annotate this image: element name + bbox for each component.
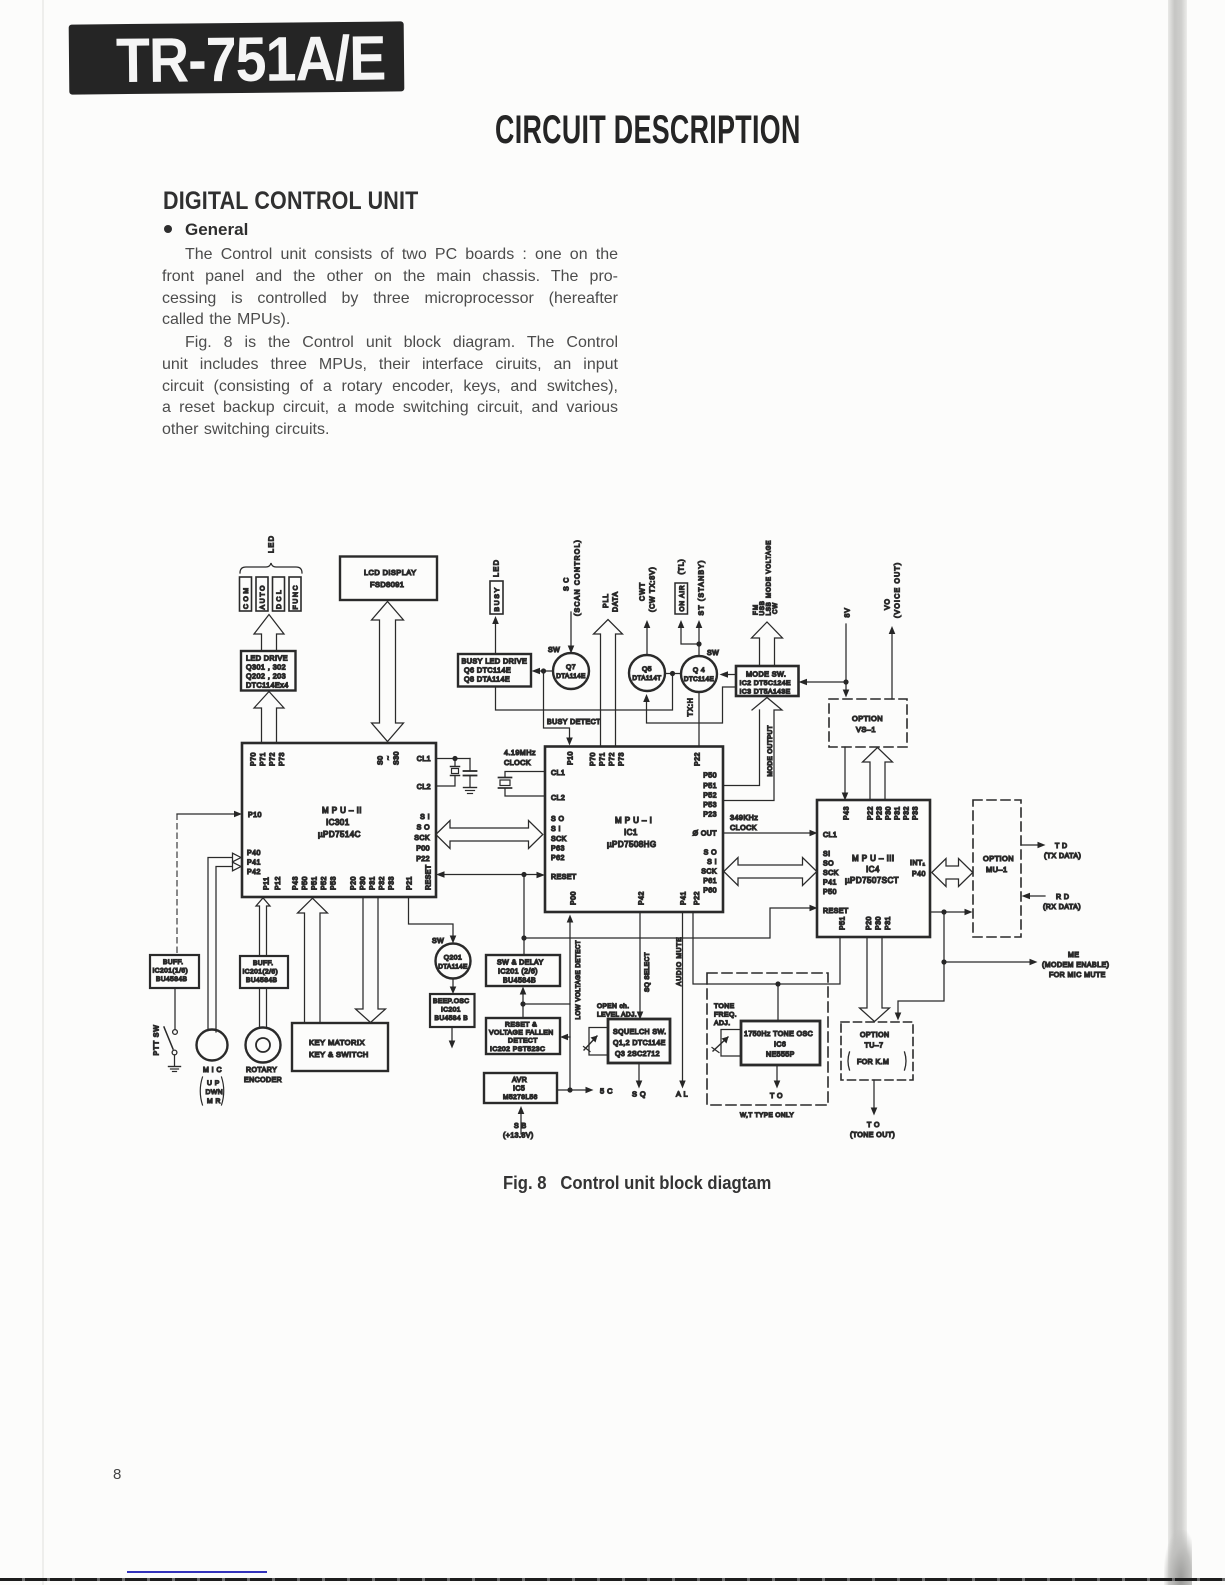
svg-text:P22: P22 (868, 806, 875, 820)
svg-text:TONE: TONE (714, 1003, 735, 1010)
block arrow MODE OUTPUT (MPU-I P51/P53 to MODE SW) (723, 698, 782, 801)
svg-text:P31: P31 (895, 806, 902, 820)
block double arrow LCD DISPLAY to MPU-II S0~S30 (372, 602, 404, 742)
svg-text:DTA114E: DTA114E (556, 673, 586, 680)
svg-text:P71: P71 (260, 752, 267, 766)
svg-text:T O: T O (770, 1093, 783, 1100)
wire MPU-III P40 to MU-1 / modem enable (930, 911, 967, 913)
svg-text:P61: P61 (703, 878, 717, 885)
wire AVR output 5C (557, 1089, 588, 1091)
svg-text:BUSY DETECT: BUSY DETECT (547, 719, 601, 726)
wire 8V supply (845, 624, 847, 692)
wire MPU-II P21 to Q201 (409, 897, 454, 938)
darker scanner corner bottom right (1164, 1530, 1192, 1585)
CIRCUIT DESCRIPTION title (495, 108, 801, 153)
junction node Q4 gate (696, 641, 701, 646)
svg-text:P42: P42 (247, 869, 261, 876)
svg-text:P40: P40 (912, 871, 926, 878)
svg-text:BUSY: BUSY (494, 586, 501, 611)
svg-text:BUSY LED DRIVE: BUSY LED DRIVE (462, 657, 528, 666)
svg-text:P70: P70 (251, 752, 258, 766)
potentiometer tone freq (721, 1030, 741, 1057)
junction node CL1 (452, 756, 457, 761)
option block TU-7 (dashed) (841, 1022, 913, 1080)
svg-text:P51: P51 (703, 783, 717, 790)
svg-text:M P U – III: M P U – III (852, 854, 895, 863)
svg-text:P20: P20 (351, 876, 358, 890)
svg-text:DETECT: DETECT (508, 1038, 538, 1045)
block 1750Hz TONE OSC IC6 NE555P (741, 1021, 820, 1065)
junction node tone input (775, 981, 780, 986)
svg-text:Q 4: Q 4 (693, 667, 705, 674)
wire MPU-I P42 to SQUELCH SW (639, 912, 641, 1014)
wire 8V to MODE SW (804, 681, 846, 683)
svg-text:CL1: CL1 (551, 770, 565, 777)
block AVR IC5 M5278L56 (484, 1073, 557, 1103)
wire NE555 to TO (776, 1065, 778, 1083)
wire low voltage node to P00 line (523, 1003, 570, 1005)
svg-text:P00: P00 (571, 891, 578, 905)
svg-text:SI: SI (823, 851, 831, 858)
svg-text:NE555P: NE555P (766, 1052, 795, 1059)
svg-text:RESET: RESET (823, 908, 849, 915)
wire MPU-III P51 to tone osc (778, 937, 840, 984)
svg-text:µPD7514C: µPD7514C (318, 830, 361, 839)
svg-text:KEY & SWITCH: KEY & SWITCH (309, 1050, 369, 1059)
option dashed enclosure W,T type only (707, 973, 828, 1105)
svg-text:P73: P73 (619, 752, 626, 766)
junction node between Q5 and Q4 (670, 671, 675, 676)
svg-text:CL1: CL1 (417, 756, 431, 763)
blue pen mark bottom left (127, 1571, 267, 1573)
wire Q7 to BUSY LED DRIVE (537, 670, 553, 672)
svg-text:S30: S30 (394, 751, 401, 765)
svg-text:M5278L56: M5278L56 (503, 1094, 538, 1101)
svg-text:IC6: IC6 (774, 1042, 786, 1049)
svg-text:349KHz: 349KHz (730, 813, 758, 822)
wire Q4 to MPU-I P22 (698, 692, 700, 746)
scanner grey strip right edge (1168, 0, 1187, 1585)
option block MU-1 (dashed) (973, 800, 1021, 937)
wire P10 input (PTT line) (177, 813, 237, 815)
block MODE SW. IC2 DT5C124E IC3 DT5A143E (736, 666, 799, 696)
svg-text:P20: P20 (866, 916, 873, 930)
svg-text:BUFF.: BUFF. (163, 959, 184, 966)
junction node AVR output (567, 1087, 572, 1092)
svg-text:ON AIR: ON AIR (679, 585, 686, 612)
svg-text:P51: P51 (840, 916, 847, 930)
svg-text:MU–1: MU–1 (986, 865, 1008, 874)
block LCD DISPLAY FSD8091 (340, 557, 437, 601)
svg-text:Q202 , 203: Q202 , 203 (246, 672, 286, 681)
crystal X301 (MPU-II) (454, 759, 456, 767)
svg-text:P63: P63 (551, 846, 565, 853)
svg-text:MODE SW.: MODE SW. (746, 670, 786, 679)
page number (113, 1466, 121, 1483)
svg-text:AUTO: AUTO (260, 584, 267, 610)
svg-text:5 C: 5 C (600, 1087, 613, 1096)
svg-text:OPTION: OPTION (860, 1032, 890, 1039)
svg-text:DTA114T: DTA114T (632, 675, 661, 682)
svg-text:CLOCK: CLOCK (730, 823, 757, 832)
svg-text:RESET: RESET (551, 874, 577, 881)
option block VS-1 (dashed) (829, 699, 907, 747)
svg-text:CW: CW (772, 602, 779, 614)
svg-text:S C: S C (564, 577, 571, 591)
svg-text:ADJ.: ADJ. (714, 1020, 731, 1027)
svg-text:DATA: DATA (613, 591, 620, 612)
svg-text:P42: P42 (639, 891, 646, 905)
svg-text:S Q: S Q (632, 1090, 646, 1099)
svg-text:IC5: IC5 (513, 1086, 525, 1093)
LED indicator ON AIR (boxed) (675, 583, 688, 614)
LED indicator DCL (273, 577, 285, 611)
svg-text:(VOICE OUT): (VOICE OUT) (895, 562, 902, 618)
svg-text:P10: P10 (568, 751, 575, 765)
transistor switch Q5 DTA114T (629, 655, 665, 691)
svg-text:R D: R D (1056, 894, 1069, 901)
svg-text:AVR: AVR (512, 1077, 527, 1084)
svg-text:P40: P40 (247, 850, 261, 857)
svg-text:P33: P33 (913, 806, 920, 820)
svg-text:VOLTAGE FALLEN: VOLTAGE FALLEN (489, 1030, 554, 1037)
svg-text:OPEN ch.: OPEN ch. (597, 1003, 630, 1010)
svg-text:IC2 DT5C124E: IC2 DT5C124E (740, 680, 792, 687)
svg-text:(SCAN CONTROL): (SCAN CONTROL) (575, 539, 582, 616)
svg-text:(TONE OUT): (TONE OUT) (850, 1132, 895, 1139)
block SQUELCH SW. Q1,2 DTC114E Q3 2SC2712 (608, 1019, 670, 1063)
Fig. 8 caption (503, 1172, 771, 1194)
svg-text:P53: P53 (703, 802, 717, 809)
svg-text:ME: ME (1068, 952, 1079, 959)
svg-text:ENCODER: ENCODER (244, 1077, 282, 1084)
faint scanner line left (42, 0, 44, 1585)
wire MPU-I P41 audio mute to AL (682, 912, 684, 1083)
svg-text:S I: S I (551, 826, 561, 833)
svg-text:BEEP.OSC: BEEP.OSC (433, 998, 469, 1005)
paragraph 1 (162, 244, 618, 331)
junction node low voltage (520, 1001, 525, 1006)
wire BUSY LED DRIVE to BUSY LED (495, 622, 497, 654)
block arrow PLL DATA from MPU-I (594, 620, 623, 747)
svg-text:BU4584B: BU4584B (246, 977, 278, 984)
svg-text:P11: P11 (264, 877, 271, 890)
svg-text:P22: P22 (695, 752, 702, 766)
svg-text:RESET &: RESET & (505, 1022, 537, 1029)
wire RESET node down to SW&DELAY (523, 875, 525, 956)
svg-text:IC202 PST523C: IC202 PST523C (490, 1046, 545, 1053)
svg-text:P12: P12 (275, 876, 282, 890)
block double arrow MPU-II / MPU-I serial bus (436, 821, 543, 849)
svg-text:P43: P43 (844, 806, 851, 820)
svg-text:µPD7507SCT: µPD7507SCT (845, 876, 899, 885)
svg-text:P30: P30 (886, 806, 893, 820)
wire LOW VOLTAGE DETECT (MPU-I P00) (569, 920, 571, 1090)
switch PTT SW (174, 988, 176, 1029)
svg-text:P21: P21 (407, 876, 414, 890)
svg-text:KEY MATORIX: KEY MATORIX (309, 1038, 365, 1047)
TR-751A/E model badge (69, 21, 405, 94)
svg-text:BU4584B: BU4584B (156, 976, 188, 983)
wire RESET net MPU-II / MPU-I (441, 874, 540, 876)
svg-text:P50: P50 (302, 876, 309, 890)
svg-text:P10: P10 (248, 812, 262, 819)
transistor switch Q7 DTA114E (553, 653, 589, 689)
svg-text:OPTION: OPTION (852, 714, 883, 723)
block BUSY LED DRIVE Q6 DTC114E Q8 DTA114E (458, 654, 531, 687)
ground (PTT) (169, 1066, 181, 1068)
wire reset net to MPU-III RESET (524, 908, 812, 938)
svg-text:LED: LED (492, 559, 501, 577)
bottom separator dashed dark line (0, 1578, 1225, 1581)
svg-text:IC301: IC301 (326, 818, 350, 827)
block BUFF. IC201(1/6) BU4584B (150, 955, 199, 988)
svg-text:COM: COM (243, 585, 250, 609)
svg-text:CLOCK: CLOCK (504, 758, 531, 767)
block arrow KEY MATRIX to MPU-II P43-P53 (298, 898, 328, 1023)
svg-text:(CW TX:8V): (CW TX:8V) (650, 566, 657, 612)
svg-text:Ø OUT: Ø OUT (693, 831, 718, 838)
svg-text:Q301 , 302: Q301 , 302 (246, 663, 286, 672)
svg-text:P52: P52 (703, 793, 717, 800)
wire RESET&VF to SW&DELAY (522, 992, 524, 1018)
svg-text:CWT: CWT (640, 581, 647, 601)
svg-text:P30: P30 (360, 876, 367, 890)
svg-text:DCL: DCL (276, 588, 283, 609)
svg-text:FOR MIC MUTE: FOR MIC MUTE (1049, 972, 1106, 979)
svg-text:M I C: M I C (203, 1067, 222, 1074)
svg-text:1750Hz TONE OSC: 1750Hz TONE OSC (744, 1031, 813, 1038)
wire Q5-Q4 link (665, 673, 681, 675)
svg-text:TU–7: TU–7 (865, 1043, 884, 1050)
LED indicator BUSY (490, 581, 503, 614)
svg-text:P50: P50 (823, 889, 837, 896)
svg-text:FOR K.M: FOR K.M (857, 1059, 889, 1066)
svg-text:Q8 DTA114E: Q8 DTA114E (464, 675, 510, 684)
svg-text:LED DRIVE: LED DRIVE (246, 654, 288, 663)
wire MU-1 to TD (TX DATA) (1021, 844, 1040, 846)
LED indicator AUTO (256, 577, 268, 611)
svg-text:IC3 DT5A143E: IC3 DT5A143E (740, 689, 791, 696)
General bullet heading (164, 220, 248, 240)
junction node RESET (521, 872, 526, 877)
svg-text:Q7: Q7 (566, 664, 576, 671)
wire phi OUT to MPU-III CL1 (723, 832, 812, 834)
block double arrow MPU-I / MPU-III serial bus (724, 858, 817, 886)
svg-text:IC201: IC201 (441, 1007, 461, 1014)
svg-text:P41: P41 (247, 860, 261, 867)
svg-text:BUFF.: BUFF. (253, 960, 274, 967)
wire MIC to MPU-II P40/P41 (208, 858, 233, 1031)
microphone MIC (197, 1030, 228, 1061)
svg-text:P72: P72 (270, 752, 277, 766)
svg-text:P31: P31 (370, 876, 377, 890)
svg-text:TX:H: TX:H (688, 697, 695, 716)
svg-text:M P U – II: M P U – II (322, 806, 362, 815)
block RESET & VOLTAGE FALLEN DETECT IC202 PST523C (486, 1018, 560, 1054)
svg-text:T D: T D (1055, 843, 1068, 850)
svg-text:IC4: IC4 (866, 865, 880, 874)
svg-text:P52: P52 (321, 876, 328, 890)
svg-text:INT₁: INT₁ (910, 860, 926, 867)
wire SB supply to AVR (520, 1111, 522, 1134)
op block MPU-I IC1 uPD7508HG (545, 747, 723, 913)
svg-text:(TL): (TL) (679, 558, 686, 574)
svg-text:IC201 (2/6): IC201 (2/6) (498, 969, 538, 976)
svg-text:SQ SELECT: SQ SELECT (644, 952, 651, 992)
svg-text:ST (STANBY): ST (STANBY) (699, 559, 706, 615)
svg-text:P32: P32 (379, 876, 386, 890)
block BUFF. IC201(2/6) BU4584B (240, 956, 288, 988)
svg-text:SW: SW (432, 938, 444, 945)
svg-text:Q1,2 DTC114E: Q1,2 DTC114E (613, 1040, 666, 1047)
brace over LED indicator boxes (240, 563, 302, 573)
block BEEP.OSC IC201 BU4584B (430, 994, 475, 1027)
svg-text:SCK: SCK (823, 870, 839, 877)
rotary encoder (246, 1028, 281, 1063)
svg-text:P51: P51 (312, 876, 319, 890)
svg-text:M P U – I: M P U – I (615, 816, 652, 825)
svg-text:P00: P00 (416, 846, 430, 853)
svg-text:SO: SO (823, 861, 834, 868)
wire modem enable branch (898, 912, 944, 1015)
svg-text:VS–1: VS–1 (856, 725, 876, 734)
wire MODE SW to Q5 base (647, 687, 737, 723)
wire Q5 to CWT output (646, 626, 648, 655)
op block MPU-II IC301 uPD7514C (242, 743, 436, 897)
svg-text:IC201(1/6): IC201(1/6) (153, 968, 189, 975)
wire Q4 to ON AIR / ST outputs (698, 626, 700, 656)
svg-text:U P: U P (207, 1080, 220, 1087)
wire BEEP OSC output (451, 1027, 453, 1043)
svg-text:SCK: SCK (701, 869, 717, 876)
block arrow MODE SW to mode voltage outputs (752, 622, 783, 666)
wire SC input to Q7 (570, 612, 572, 648)
svg-text:SW: SW (707, 650, 719, 657)
block arrow MPU-III P20/P30/P31 to TU-7 (860, 937, 890, 1022)
block double arrow MPU-III / MU-1 (932, 859, 973, 887)
svg-text:P41: P41 (823, 880, 837, 887)
svg-text:P30: P30 (876, 916, 883, 930)
wire MODE SW to Q4 (725, 674, 736, 676)
svg-text:IC1: IC1 (624, 828, 638, 837)
svg-text:P31: P31 (885, 916, 892, 930)
svg-text:MODE VOLTAGE: MODE VOLTAGE (766, 540, 773, 598)
transistor switch Q4 DTC114E (681, 656, 717, 692)
svg-text:BU4584 B: BU4584 B (435, 1015, 469, 1022)
crystal X1 (MPU-I clock) (505, 772, 545, 778)
wire TU-7 to TO (TONE OUT) (873, 1080, 875, 1110)
svg-text:P62: P62 (551, 855, 565, 862)
svg-text:P22: P22 (694, 891, 701, 905)
svg-text:P70: P70 (590, 752, 597, 766)
svg-text:(+13.8V): (+13.8V) (503, 1133, 534, 1140)
svg-text:T O: T O (867, 1122, 880, 1129)
wire tone node to NE555 (777, 984, 779, 1021)
svg-text:P22: P22 (416, 856, 430, 863)
svg-text:Q201: Q201 (444, 955, 462, 962)
svg-text:P33: P33 (389, 876, 396, 890)
junction node modem enable (941, 909, 946, 914)
wire MPU-II CL1 to crystal node (436, 758, 470, 760)
svg-text:Q6 DTC114E: Q6 DTC114E (464, 666, 511, 675)
svg-text:P71: P71 (600, 752, 607, 766)
ground (MPU-II oscillator) (464, 787, 477, 789)
LED indicator FUNC (289, 577, 301, 611)
junction node reset backup (521, 935, 526, 940)
svg-text:IC201(2/6): IC201(2/6) (243, 969, 279, 976)
svg-text:P73: P73 (279, 752, 286, 766)
label (UP DWN MR) (200, 1077, 202, 1105)
wire VS-1 to MPU-III P43 (844, 747, 846, 795)
svg-text:A L: A L (676, 1090, 688, 1099)
DIGITAL CONTROL UNIT heading (163, 187, 418, 216)
svg-text:P72: P72 (609, 752, 616, 766)
svg-text:P43: P43 (293, 876, 300, 890)
svg-text:SCK: SCK (414, 835, 430, 842)
svg-text:CL2: CL2 (551, 795, 565, 802)
wire AVR branch to RESET&VF detect (566, 1036, 571, 1038)
svg-text:PTT SW: PTT SW (154, 1024, 161, 1055)
svg-text:(MODEM ENABLE): (MODEM ENABLE) (1042, 962, 1109, 969)
wire RD (RX DATA) to MU-1 (1026, 895, 1045, 897)
svg-text:DTA114E: DTA114E (438, 964, 468, 971)
svg-text:LEVEL ADJ.: LEVEL ADJ. (597, 1012, 637, 1019)
svg-text:DTC114E: DTC114E (684, 676, 714, 683)
svg-text:PLL: PLL (603, 593, 610, 608)
junction node ME (941, 959, 946, 964)
svg-text:(TX DATA): (TX DATA) (1044, 853, 1081, 860)
svg-text:CL1: CL1 (823, 832, 837, 839)
block arrow MPU-II P20-P33 to KEY MATRIX (356, 898, 386, 1023)
svg-text:VO: VO (885, 598, 892, 610)
svg-text:S0: S0 (378, 756, 385, 765)
wire MPU-I P22 to tone oscillator (693, 912, 778, 984)
svg-text:MODE OUTPUT: MODE OUTPUT (767, 725, 774, 776)
svg-text:P60: P60 (703, 888, 717, 895)
svg-text:8V: 8V (845, 607, 852, 617)
junction node busy detect (541, 668, 546, 673)
svg-text:P23: P23 (703, 812, 717, 819)
svg-text:Q3 2SC2712: Q3 2SC2712 (615, 1051, 660, 1058)
wire BUSY DETECT to MPU-I P10 (544, 671, 570, 740)
block KEY MATORIX KEY & SWITCH (292, 1023, 388, 1071)
svg-text:W,T TYPE ONLY: W,T TYPE ONLY (740, 1112, 794, 1119)
LED indicator COM (240, 577, 252, 611)
svg-text:RESET: RESET (426, 864, 433, 890)
svg-text:SW & DELAY: SW & DELAY (497, 960, 544, 967)
svg-text:SCK: SCK (551, 836, 567, 843)
svg-text:S O: S O (551, 816, 565, 823)
wire BUSY LED DRIVE output to Q5/Q4 node (496, 676, 673, 710)
block SW & DELAY IC201 (2/6) BU4584B (486, 955, 560, 986)
svg-text:P41: P41 (681, 891, 688, 905)
block LED DRIVE Q301,302 Q202,203 DTC114Ex4 (241, 651, 296, 691)
svg-text:LOW VOLTAGE DETECT: LOW VOLTAGE DETECT (575, 940, 582, 1020)
svg-text:FSD8091: FSD8091 (370, 580, 404, 589)
svg-text:P53: P53 (331, 876, 338, 890)
svg-text:OPTION: OPTION (983, 854, 1014, 863)
svg-text:P50: P50 (703, 773, 717, 780)
svg-text:DTC114Ex4: DTC114Ex4 (246, 681, 289, 690)
block arrow MPU-III P22-P33 to VS-1 (863, 748, 893, 801)
svg-text:P32: P32 (904, 806, 911, 820)
block arrow MPU-II P70-P73 to LED DRIVE (254, 692, 284, 744)
svg-text:FREQ.: FREQ. (714, 1012, 737, 1019)
junction node 8V (843, 679, 848, 684)
svg-text:LED: LED (267, 535, 276, 553)
svg-text:S I: S I (420, 814, 430, 821)
